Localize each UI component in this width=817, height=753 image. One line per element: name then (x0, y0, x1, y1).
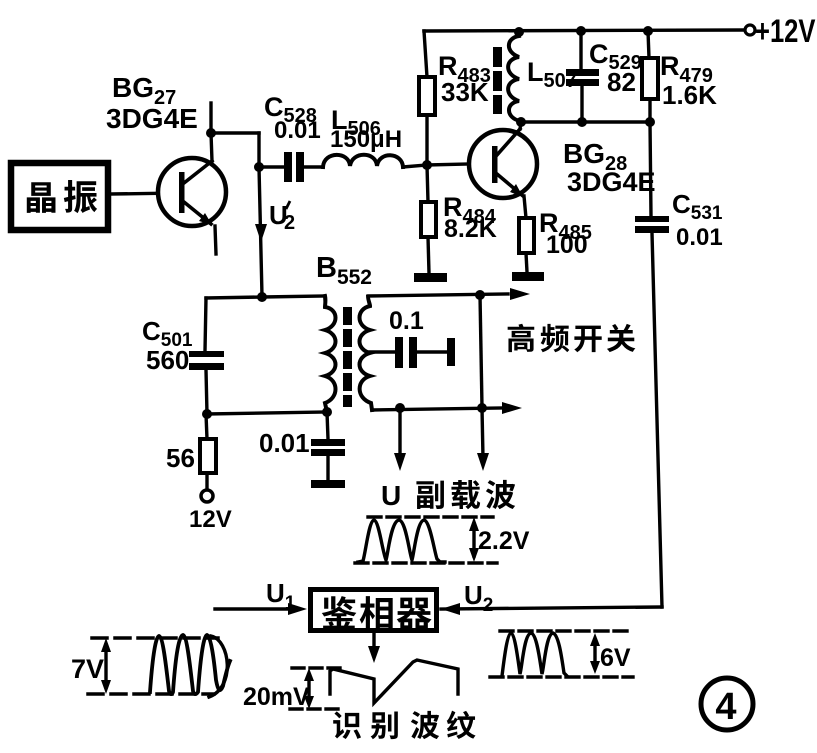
wire BG27 collector up (211, 133, 212, 161)
wire C529 bottom lead (580, 86, 583, 122)
waveform 6V dashed top (500, 629, 633, 632)
wire 56 resistor top (206, 414, 207, 439)
capacitor 0.01 B552 (311, 439, 345, 456)
text 鉴相器 (322, 596, 432, 630)
svg-text:U: U (381, 480, 401, 511)
node collector junction BG27 (206, 128, 216, 138)
wire U2p down to B552 (259, 167, 262, 296)
waveform 6V dashed bottom (490, 675, 633, 678)
wire secondary top out (368, 294, 508, 296)
dash 20mV top (292, 666, 340, 669)
svg-text:0.01: 0.01 (676, 224, 723, 251)
waveform 2.2V dashed top (368, 515, 493, 518)
wire R483 bottom to base node (425, 115, 428, 165)
node secondary top junction (475, 290, 485, 300)
resistor 56 (200, 439, 216, 473)
node secondary bottom junction 2 (477, 403, 487, 413)
resistor R483 (419, 77, 435, 115)
node secondary bottom junction 1 (395, 403, 405, 413)
wire L506 to base node (403, 165, 427, 167)
wire R484 to ground (428, 237, 429, 273)
svg-text:33K: 33K (441, 77, 489, 107)
wire 56 bottom (205, 473, 208, 490)
waveform 7V envelope arc (209, 636, 227, 697)
node base junction BG28 (422, 160, 432, 170)
waveform 2.2V dashed bottom (355, 561, 497, 564)
capacitor C501 (189, 351, 224, 370)
transistor BG27 (158, 158, 226, 226)
wire C529 top lead (579, 31, 582, 69)
transformer B552 primary winding (325, 296, 336, 412)
wire base node to BG28 base (427, 164, 469, 165)
terminal bar 0.1 (447, 338, 455, 366)
ground R484 (414, 273, 447, 282)
wire secondary right vertical (480, 295, 482, 407)
resistor R485 (519, 218, 534, 253)
node C529 bottom (577, 117, 587, 127)
wire 0.01 cap top (327, 412, 328, 439)
core L507 dashes (493, 47, 502, 114)
capacitor C529 (566, 69, 599, 86)
text 识别波纹 (333, 711, 475, 740)
waveform 7V dashed top (92, 636, 218, 640)
wire C501 down (206, 370, 207, 414)
arrow 20mV double (304, 668, 314, 709)
text 高频开关 (508, 324, 636, 353)
box crystal oscillator 晶振 (11, 163, 108, 230)
wire phase detector output down (372, 632, 375, 652)
wire 0.1 cap right (417, 350, 447, 353)
svg-text:56: 56 (166, 443, 195, 473)
svg-text:560: 560 (146, 345, 189, 375)
capacitor C531 (635, 216, 669, 233)
arrow 2.2V double (469, 517, 479, 562)
wire stub above junction (209, 103, 212, 133)
wire +12V rail (424, 30, 744, 31)
svg-text:150μH: 150μH (330, 126, 402, 153)
arrowhead subcarrier 1 (394, 453, 406, 471)
wire subcarrier arrow 1 (398, 408, 401, 458)
node rail-R479 (643, 26, 653, 36)
box phase detector 鉴相器 (311, 590, 437, 631)
capacitor C528 (284, 152, 304, 182)
wire BG28 collector up (520, 122, 521, 129)
arrowhead secondary top (510, 288, 530, 300)
node rail-C529 (576, 26, 586, 36)
arrowhead U2 into box (441, 603, 460, 615)
node C528 junction (254, 162, 264, 172)
svg-text:4: 4 (715, 686, 736, 728)
svg-text:0.1: 0.1 (389, 307, 424, 335)
wire primary bottom (207, 412, 327, 414)
wire R479 node to C531 (650, 122, 651, 216)
wire R479 bottom lead (648, 99, 651, 122)
wire junction right (211, 131, 259, 134)
transformer B552 core (343, 307, 352, 407)
resistor R479 (642, 58, 658, 99)
svg-text:100: 100 (546, 231, 588, 259)
wire C528 to L506 (304, 165, 323, 168)
arrowhead output down (368, 646, 380, 663)
node 12V terminal (201, 490, 213, 502)
waveform 7V sine (150, 635, 230, 694)
wire B552 primary top (206, 296, 325, 298)
wire U1 input (215, 607, 295, 610)
transistor BG28 (469, 129, 537, 198)
figure number circle 4 (701, 678, 753, 730)
svg-text:0.01: 0.01 (259, 428, 310, 458)
svg-text:20mV: 20mV (243, 683, 310, 711)
wire secondary bottom out (372, 408, 502, 410)
node +12V terminal (745, 25, 755, 35)
node primary top junction (257, 292, 267, 302)
wire node to C528 (259, 165, 284, 168)
wire BG27 emitter stub (215, 226, 216, 254)
node C501 bottom junction (202, 409, 212, 419)
svg-text:1.6K: 1.6K (662, 80, 717, 110)
node collector-L507 (516, 117, 526, 127)
waveform 7V dashed bottom (88, 692, 214, 696)
ground 0.01 cap (311, 480, 345, 488)
wire rail corner down to R483 (424, 31, 427, 77)
wire C531 down to U2 corner (652, 233, 662, 607)
node primary bottom junction (322, 407, 332, 417)
wire R485 to ground (526, 253, 527, 272)
arrowhead U1 (288, 603, 307, 615)
wire subcarrier arrow 2 (482, 408, 483, 458)
text 晶振 (27, 180, 97, 213)
arrowhead subcarrier 2 (477, 453, 489, 471)
svg-text:0.01: 0.01 (274, 117, 321, 144)
svg-text:+12V: +12V (755, 14, 816, 49)
node rail-L507 (514, 27, 524, 37)
wire base node to R484 (427, 165, 428, 202)
node R479 bottom (645, 117, 655, 127)
text U 副载波 (381, 480, 515, 511)
svg-text:7V: 7V (71, 654, 104, 684)
wire 0.1 cap tap (370, 350, 395, 353)
arrowhead secondary bottom (502, 402, 522, 414)
svg-text:6V: 6V (600, 644, 631, 672)
wire down to C528 node (257, 133, 260, 167)
svg-text:82: 82 (607, 67, 636, 97)
arrow 6V double (590, 633, 600, 674)
wire 0.01 cap bottom (326, 456, 329, 480)
dash 20mV bottom (290, 707, 340, 710)
svg-text:2: 2 (284, 212, 295, 234)
arrowhead U2p (255, 224, 267, 242)
svg-text:2.2V: 2.2V (478, 527, 530, 555)
wire BG28 emitter down (524, 196, 526, 218)
capacitor 0.1 (395, 337, 417, 368)
wire C501 top corner (205, 298, 206, 351)
waveform 6V wave (502, 633, 567, 676)
inductor L506 (323, 155, 403, 167)
ground R485 (512, 272, 544, 281)
wire U2 horizontal to phase detector (441, 607, 662, 609)
waveform discriminator sawtooth (330, 660, 458, 703)
transformer B552 secondary winding (360, 297, 373, 410)
resistor R484 (421, 202, 436, 237)
waveform subcarrier wave (358, 520, 445, 562)
arrow 7V double (101, 638, 111, 694)
wire R479 top lead (648, 31, 649, 58)
wire crystal to BG27 base (111, 193, 181, 194)
svg-text:12V: 12V (189, 506, 232, 533)
wire collector bus y122 (519, 120, 650, 123)
inductor L507 (508, 36, 520, 121)
svg-text:3DG4E: 3DG4E (567, 167, 656, 197)
svg-text:3DG4E: 3DG4E (106, 103, 198, 134)
svg-text:8.2K: 8.2K (444, 215, 497, 243)
